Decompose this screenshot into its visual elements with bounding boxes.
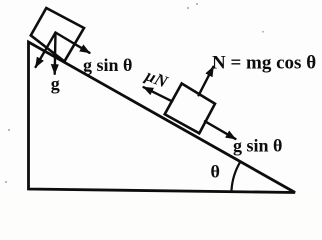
svg-text:g: g xyxy=(51,74,60,94)
svg-text:g sin θ: g sin θ xyxy=(83,55,132,75)
block A (top-left) xyxy=(31,8,84,61)
svg-text:N = mg cos θ: N = mg cos θ xyxy=(212,52,316,73)
block B (on slope) xyxy=(165,84,215,134)
arrow g sin θ (down-slope, upper) xyxy=(56,33,90,53)
angle arc xyxy=(232,162,241,191)
arrow g (straight down) xyxy=(54,33,57,74)
arrow µN (up-slope friction) xyxy=(144,87,172,101)
svg-text:θ: θ xyxy=(211,161,220,181)
incline triangle xyxy=(29,42,296,193)
arrow g-cos (down-left, unlabeled) xyxy=(36,33,56,68)
svg-text:g sin θ: g sin θ xyxy=(233,136,282,156)
arrow N (normal) xyxy=(199,67,214,96)
arrow g sin θ (down-slope, lower) xyxy=(205,121,235,139)
scan speckles xyxy=(5,3,264,183)
